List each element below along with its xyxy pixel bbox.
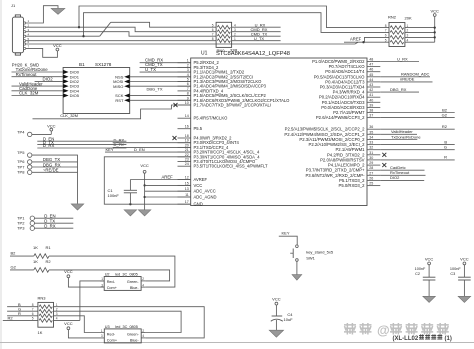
svg-text:CLK_32M: CLK_32M: [60, 113, 78, 118]
svg-text:6: 6: [212, 28, 214, 32]
svg-text:34: 34: [369, 136, 373, 140]
svg-text:Green-: Green-: [127, 332, 140, 336]
svg-text:7: 7: [385, 29, 387, 33]
svg-text:DIO5: DIO5: [70, 93, 80, 98]
svg-text:8: 8: [187, 92, 189, 96]
svg-text:38: 38: [369, 109, 373, 113]
svg-text:Green-: Green-: [127, 280, 140, 284]
svg-text:(1): (1): [445, 336, 452, 342]
svg-text:~RE/DE: ~RE/DE: [43, 168, 59, 173]
svg-text:D_RX: D_RX: [43, 143, 55, 148]
svg-text:VCC: VCC: [272, 297, 281, 302]
svg-text:27: 27: [369, 171, 373, 175]
svg-text:AVREF: AVREF: [194, 177, 208, 182]
svg-text:led_3C_0805: led_3C_0805: [115, 273, 138, 277]
svg-text:35: 35: [369, 130, 373, 134]
svg-text:PH20_K_SMD: PH20_K_SMD: [12, 63, 39, 68]
svg-text:1K: 1K: [38, 330, 43, 335]
svg-text:24: 24: [185, 162, 189, 166]
svg-text:13: 13: [185, 187, 189, 191]
svg-text:5: 5: [212, 23, 214, 27]
svg-text:29: 29: [369, 161, 373, 165]
svg-text:40: 40: [369, 98, 373, 102]
svg-text:7: 7: [187, 87, 189, 91]
svg-text:8: 8: [212, 37, 214, 41]
svg-text:P3.5/T1/T0CLKO/ECI_4/SS_4/PWMF: P3.5/T1/T0CLKO/ECI_4/SS_4/PWMFLT: [194, 164, 268, 169]
svg-text:KEY: KEY: [281, 231, 289, 236]
svg-text:U_TX: U_TX: [145, 67, 156, 72]
svg-text:14: 14: [185, 114, 189, 118]
svg-text:led_3C_0805: led_3C_0805: [115, 325, 138, 329]
svg-text:DIO2: DIO2: [43, 77, 54, 82]
svg-text:C2: C2: [415, 272, 420, 276]
svg-text:AREF: AREF: [162, 175, 174, 180]
svg-text:28: 28: [369, 166, 373, 170]
svg-text:100nF: 100nF: [415, 267, 426, 271]
svg-text:DBG_TX: DBG_TX: [147, 86, 163, 91]
svg-text:31: 31: [369, 151, 373, 155]
svg-text:Blue-: Blue-: [130, 286, 140, 290]
svg-text:22: 22: [185, 153, 189, 157]
svg-text:8: 8: [385, 24, 387, 28]
svg-text:1K: 1K: [33, 259, 38, 264]
svg-text:ADC_AVCC: ADC_AVCC: [194, 189, 216, 194]
svg-text:4: 4: [187, 73, 189, 77]
svg-text:Red-: Red-: [107, 332, 116, 336]
svg-text:23: 23: [185, 158, 189, 162]
svg-text:G: G: [444, 145, 447, 150]
svg-text:47: 47: [369, 63, 373, 67]
svg-text:5: 5: [187, 78, 189, 82]
svg-text:RN3: RN3: [38, 295, 47, 300]
svg-text:VCC: VCC: [194, 183, 203, 188]
svg-text:20K: 20K: [405, 16, 412, 21]
svg-text:U3: U3: [105, 325, 110, 329]
svg-text:D_RX: D_RX: [44, 224, 56, 229]
svg-text:2: 2: [142, 277, 144, 281]
svg-text:VCC: VCC: [425, 256, 434, 261]
svg-text:DIO2: DIO2: [390, 175, 400, 180]
svg-text:VCC: VCC: [53, 43, 62, 48]
svg-text:DBG_RX: DBG_RX: [390, 87, 407, 92]
svg-text:Com+: Com+: [107, 286, 118, 290]
svg-text:@: @: [377, 323, 390, 338]
svg-text:B2: B2: [11, 251, 17, 256]
svg-text:TP4: TP4: [17, 129, 25, 134]
svg-text:4: 4: [142, 334, 144, 338]
svg-text:1K: 1K: [33, 245, 38, 250]
svg-text:STC8A8K64S4A12_LQFP48: STC8A8K64S4A12_LQFP48: [216, 51, 290, 57]
svg-text:P5.5: P5.5: [194, 126, 203, 131]
svg-text:RxTimeout: RxTimeout: [16, 72, 38, 77]
svg-text:19: 19: [185, 139, 189, 143]
svg-text:33: 33: [369, 141, 373, 145]
svg-text:3: 3: [187, 68, 189, 72]
svg-text:AREF: AREF: [350, 37, 362, 42]
svg-text:11: 11: [185, 193, 189, 197]
svg-text:(XL-LL02: (XL-LL02: [393, 336, 419, 342]
svg-text:P1.7/ADC7/TXD_3/PWM7_2/CCP0/XT: P1.7/ADC7/TXD_3/PWM7_2/CCP0/XTALI: [194, 103, 271, 108]
svg-text:42: 42: [369, 88, 373, 92]
svg-text:C3: C3: [450, 272, 455, 276]
svg-text:VCC: VCC: [64, 321, 73, 326]
svg-text:43: 43: [369, 83, 373, 87]
svg-text:R2: R2: [8, 316, 14, 321]
svg-text:VCC: VCC: [430, 9, 439, 14]
svg-text:B1: B1: [79, 62, 85, 67]
svg-text:1: 1: [187, 59, 189, 63]
svg-text:10uF: 10uF: [284, 317, 294, 322]
svg-text:RST: RST: [115, 98, 124, 103]
svg-text:U1: U1: [201, 50, 208, 56]
svg-text:VCC: VCC: [64, 269, 73, 274]
svg-text:RN2: RN2: [388, 14, 397, 19]
svg-text:21: 21: [185, 148, 189, 152]
svg-text:U2: U2: [105, 273, 110, 277]
svg-text:ADC_AGND: ADC_AGND: [194, 195, 217, 200]
svg-text:48: 48: [369, 58, 373, 62]
svg-text:17: 17: [185, 200, 189, 204]
svg-text:VCC: VCC: [140, 163, 149, 168]
svg-text:R1: R1: [46, 245, 52, 250]
svg-text:GND: GND: [194, 202, 203, 207]
svg-text:SW1: SW1: [306, 256, 315, 261]
svg-text:18: 18: [185, 134, 189, 138]
svg-text:R2: R2: [442, 124, 448, 129]
svg-text:7: 7: [212, 32, 214, 36]
svg-text:45: 45: [369, 73, 373, 77]
svg-text:20: 20: [185, 143, 189, 147]
svg-text:41: 41: [369, 93, 373, 97]
svg-text:R2: R2: [46, 259, 52, 264]
svg-text:32: 32: [369, 146, 373, 150]
svg-text:D_EN: D_EN: [134, 147, 145, 152]
svg-text:44: 44: [369, 78, 373, 82]
svg-text:30: 30: [369, 156, 373, 160]
svg-text:R: R: [444, 155, 447, 160]
svg-text:Blue-: Blue-: [130, 339, 140, 343]
svg-text:6: 6: [187, 82, 189, 86]
svg-text:TP5: TP5: [17, 150, 25, 155]
svg-text:37: 37: [369, 114, 373, 118]
svg-text:VCC: VCC: [460, 256, 469, 261]
svg-text:16: 16: [185, 125, 189, 129]
svg-text:DBG_RX: DBG_RX: [43, 162, 61, 167]
svg-text:2: 2: [187, 63, 189, 67]
svg-text:nRE/DE: nRE/DE: [400, 77, 415, 82]
svg-text:P2.6/A14/PWM6/CCP3_2: P2.6/A14/PWM6/CCP3_2: [316, 115, 365, 120]
svg-text:U_RX: U_RX: [397, 56, 408, 61]
svg-text:25: 25: [369, 182, 373, 186]
svg-text:10: 10: [185, 101, 189, 105]
svg-text:39: 39: [369, 103, 373, 107]
svg-text:TP3: TP3: [17, 226, 25, 231]
svg-text:CLK_32M: CLK_32M: [19, 91, 39, 96]
svg-text:4: 4: [142, 283, 144, 287]
svg-text:VCC: VCC: [47, 123, 56, 128]
svg-text:R: R: [18, 311, 21, 316]
svg-text:TP7: TP7: [17, 164, 25, 169]
svg-text:46: 46: [369, 68, 373, 72]
svg-text:12: 12: [185, 176, 189, 180]
svg-text:U_TX: U_TX: [254, 36, 265, 41]
svg-text:36: 36: [369, 125, 373, 129]
svg-text:100nF: 100nF: [108, 193, 120, 198]
svg-text:key_stand_5x5: key_stand_5x5: [306, 250, 334, 255]
svg-text:1: 1: [101, 329, 103, 333]
svg-text:G2: G2: [442, 112, 448, 117]
svg-text:9: 9: [187, 96, 189, 100]
svg-text:5: 5: [385, 38, 387, 42]
svg-text:2: 2: [142, 329, 144, 333]
svg-text:P5.4/RST/MCLKO: P5.4/RST/MCLKO: [194, 116, 229, 121]
svg-text:15: 15: [185, 181, 189, 185]
svg-text:SX1278: SX1278: [95, 62, 112, 67]
svg-text:G2: G2: [11, 264, 17, 269]
svg-text:MISO: MISO: [113, 84, 123, 89]
svg-text:Com+: Com+: [107, 339, 118, 343]
svg-text:100nF: 100nF: [450, 267, 461, 271]
svg-text:P5.0/RXD3_2: P5.0/RXD3_2: [339, 183, 366, 188]
svg-text:26: 26: [369, 176, 373, 180]
svg-text:TxDone/RxDone: TxDone/RxDone: [391, 134, 421, 139]
svg-text:Red-: Red-: [107, 280, 116, 284]
svg-text:TP8: TP8: [17, 170, 25, 175]
